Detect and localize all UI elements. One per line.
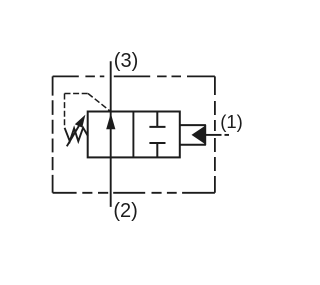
wire port (3)/(2) vertical line	[110, 61, 112, 207]
pilot line diagonal segment	[88, 94, 111, 112]
svg-text:(1): (1)	[220, 111, 243, 132]
svg-text:(2): (2)	[113, 200, 137, 222]
port (1) stub bottom line	[180, 144, 206, 146]
port (1) stub right bar	[204, 125, 206, 145]
flow path arrowhead (left cell, pointing up)	[106, 113, 115, 129]
enclosure dashed boundary top edge	[53, 75, 215, 77]
enclosure dashed boundary bottom edge	[53, 192, 215, 194]
svg-text:(3): (3)	[114, 50, 138, 72]
valve envelope	[88, 112, 180, 158]
pilot line horizontal segment	[65, 93, 89, 95]
enclosure dashed boundary right edge	[214, 76, 216, 192]
blocked port symbol bottom (right cell)	[149, 143, 165, 157]
flow direction arrowhead at port (1)	[192, 126, 205, 144]
spring (zigzag)	[65, 128, 88, 142]
pilot line vertical segment	[64, 94, 66, 128]
wire port (1) line	[206, 134, 222, 136]
adjustment arrow shaft	[67, 122, 82, 147]
port (1) stub top line	[180, 124, 206, 126]
adjustment arrow head	[75, 115, 86, 128]
blocked port symbol top (right cell)	[149, 112, 165, 127]
enclosure dashed boundary left edge	[52, 76, 54, 192]
envelope divider	[132, 112, 134, 158]
wire port (1) line dash continuation	[225, 134, 230, 136]
